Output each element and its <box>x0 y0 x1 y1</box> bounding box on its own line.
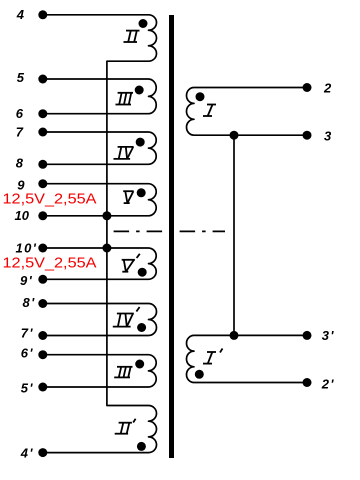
svg-text:3': 3' <box>322 328 335 343</box>
svg-text:5': 5' <box>21 380 34 395</box>
svg-text:8: 8 <box>16 156 24 171</box>
svg-text:8': 8' <box>23 295 36 310</box>
svg-text:7': 7' <box>21 326 34 341</box>
svg-text:7: 7 <box>16 125 24 140</box>
svg-text:10': 10' <box>16 241 38 256</box>
svg-text:5: 5 <box>17 70 25 85</box>
svg-text:2: 2 <box>323 81 332 96</box>
svg-text:3: 3 <box>324 129 332 144</box>
svg-text:6: 6 <box>16 106 24 121</box>
svg-text:12,5V_2,55A: 12,5V_2,55A <box>3 190 97 207</box>
svg-text:6': 6' <box>21 345 34 360</box>
svg-text:4: 4 <box>16 7 25 22</box>
svg-text:10: 10 <box>15 208 30 223</box>
svg-text:4': 4' <box>20 445 34 460</box>
svg-text:9': 9' <box>20 273 33 288</box>
svg-text:2': 2' <box>321 376 335 391</box>
svg-text:12,5V_2,55A: 12,5V_2,55A <box>3 254 97 271</box>
